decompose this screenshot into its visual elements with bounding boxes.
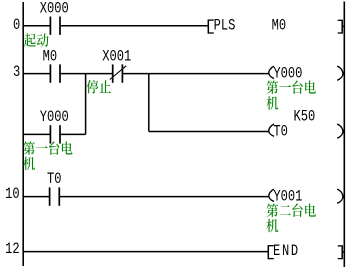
wire rung12 xyxy=(23,251,268,253)
left power rail xyxy=(22,2,24,266)
instruction bracket ] xyxy=(341,20,343,34)
svg-text:X000: X000 xyxy=(40,0,69,18)
wire rung10 left xyxy=(23,196,50,198)
junction vertical branch Y000 xyxy=(85,74,87,135)
junction vertical branch T0 xyxy=(148,74,150,132)
wire rung0 left xyxy=(23,25,50,27)
contact Y000 xyxy=(50,125,52,143)
note 起动 xyxy=(24,33,36,47)
note 停止 xyxy=(87,80,99,94)
instruction bracket ] END xyxy=(341,245,343,259)
svg-text:Y000: Y000 xyxy=(273,65,302,83)
wire M0 to X001 xyxy=(60,73,113,75)
instruction bracket [ END xyxy=(267,245,269,259)
note 第一台电机 right xyxy=(267,80,279,94)
svg-text:M0: M0 xyxy=(272,17,286,35)
contact T0 xyxy=(49,187,51,205)
note 第一台电机 left xyxy=(23,141,35,155)
svg-text:0: 0 xyxy=(13,17,20,35)
wire branch Y000 left xyxy=(23,133,50,135)
note 第二台电机 xyxy=(267,204,279,218)
wire branch Y000 right xyxy=(60,133,86,135)
svg-text:3: 3 xyxy=(13,64,20,82)
coil Y000 left paren xyxy=(269,66,274,78)
coil Y001 left paren xyxy=(269,189,274,201)
svg-text:T0: T0 xyxy=(47,171,61,189)
NC slash X001 xyxy=(110,66,126,80)
NC contact X001 xyxy=(112,64,114,82)
wire rung0 to PLS xyxy=(60,25,208,27)
coil Y001 right paren xyxy=(337,189,343,203)
coil T0 left paren xyxy=(269,124,274,136)
svg-text:10: 10 xyxy=(5,186,19,204)
svg-text:Y000: Y000 xyxy=(40,109,69,127)
instruction bracket [ PLS xyxy=(207,20,209,34)
wire rung3 left xyxy=(23,73,50,75)
coil T0 right paren xyxy=(337,124,343,138)
svg-text:K50: K50 xyxy=(294,108,316,126)
svg-text:PLS: PLS xyxy=(214,17,236,35)
contact M0 xyxy=(50,64,52,82)
svg-text:END: END xyxy=(273,243,300,261)
svg-text:Y001: Y001 xyxy=(273,188,302,206)
svg-text:X001: X001 xyxy=(102,48,131,66)
svg-text:M0: M0 xyxy=(43,48,57,66)
contact X000 xyxy=(50,17,52,35)
svg-text:12: 12 xyxy=(5,241,19,259)
wire X001 to coil Y000 xyxy=(122,73,269,75)
coil Y000 right paren xyxy=(337,66,343,80)
wire rung10 to coil Y001 xyxy=(59,196,269,198)
wire branch T0 xyxy=(149,131,269,133)
svg-text:T0: T0 xyxy=(273,123,287,141)
right power rail xyxy=(343,2,345,268)
